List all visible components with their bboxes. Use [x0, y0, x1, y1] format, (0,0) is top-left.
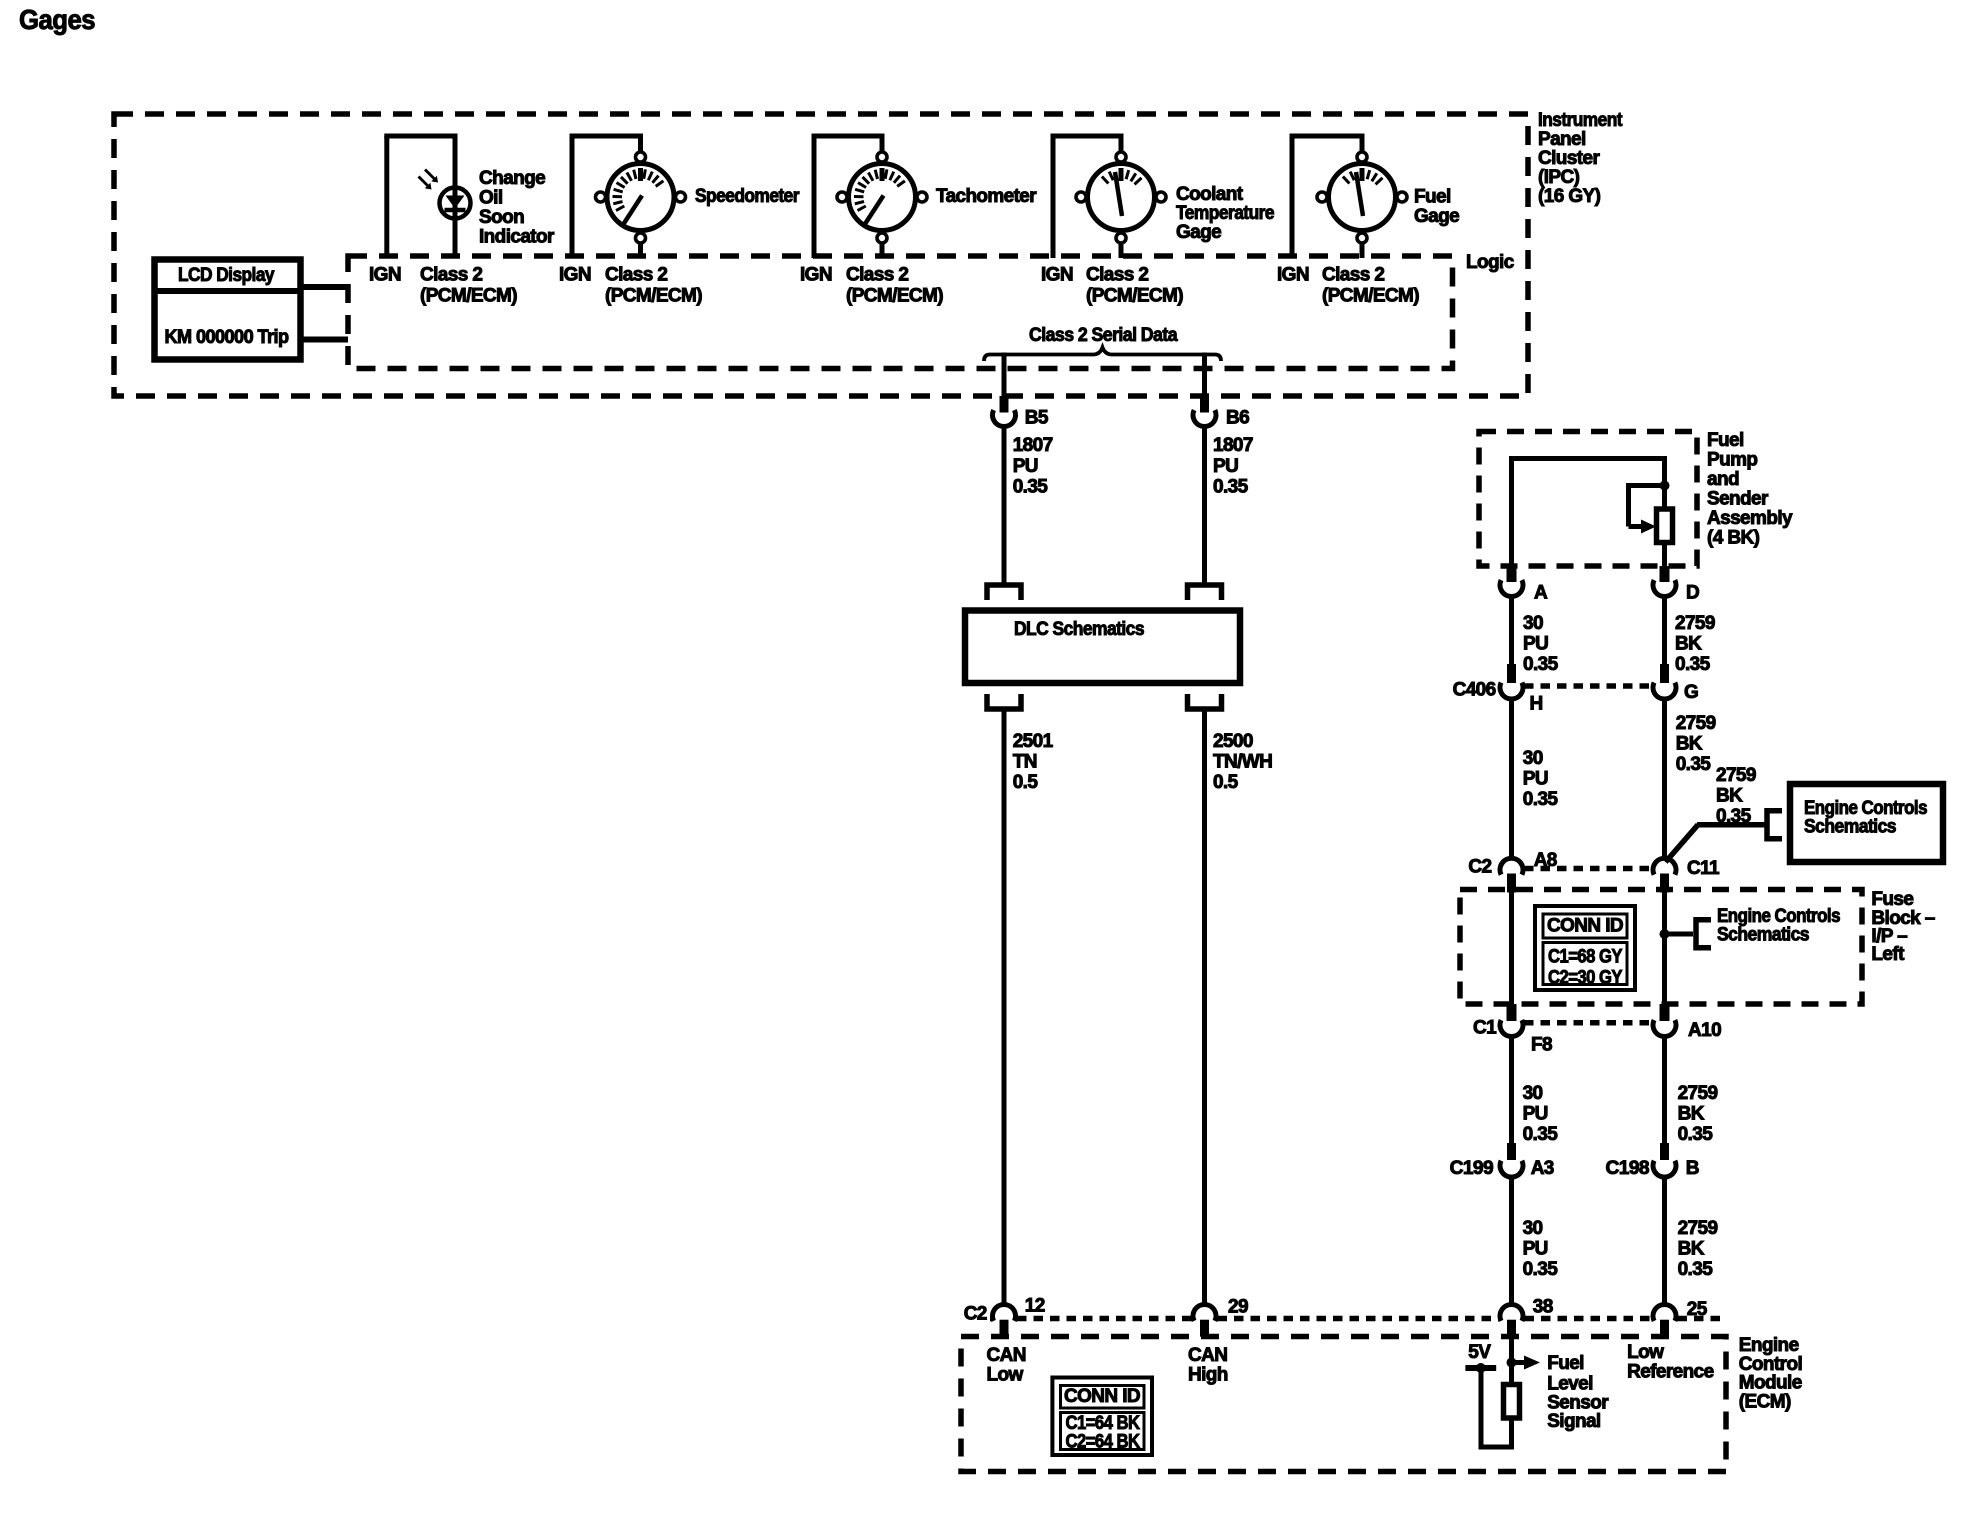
- CONN ID header cell (fuse block): [1543, 914, 1627, 938]
- svg-text:BK: BK: [1678, 1238, 1705, 1259]
- svg-text:PU: PU: [1523, 1103, 1548, 1124]
- indicator lamp: Change Oil Soon LED: [419, 170, 471, 219]
- svg-text:C199: C199: [1450, 1158, 1494, 1179]
- svg-text:25: 25: [1687, 1299, 1708, 1320]
- connector terminal (down cup) at x=1511.5: [1500, 858, 1523, 874]
- wire through LED: [453, 134, 458, 259]
- wire 2759 BK (A10 to C198): [1662, 1035, 1667, 1145]
- wire to Fuel Gage top terminal: [1360, 134, 1365, 153]
- wire to Speedometer top terminal: [638, 134, 643, 153]
- wire 2759 BK (G to C11): [1662, 697, 1667, 859]
- IGN wire loop for Change Oil Soon Indicator: [384, 136, 389, 258]
- svg-text:Oil: Oil: [479, 187, 503, 208]
- in-line connector C1/A10 mate line: [1524, 1020, 1652, 1026]
- wire resistor to 5V: [1509, 1418, 1514, 1447]
- svg-text:PU: PU: [1523, 768, 1548, 789]
- svg-text:(ECM): (ECM): [1739, 1392, 1791, 1413]
- in-line connector C2/C11 mate line: [1524, 866, 1652, 872]
- wire inside pump: top run: [1509, 456, 1667, 461]
- connector pin D (fuel pump): [1660, 566, 1670, 582]
- svg-text:(4 BK): (4 BK): [1707, 527, 1760, 548]
- gauge symbol: Fuel Gage: [1317, 152, 1407, 243]
- svg-text:A: A: [1534, 582, 1548, 603]
- svg-text:PU: PU: [1013, 456, 1038, 477]
- svg-text:Sender: Sender: [1707, 488, 1769, 509]
- svg-text:Instrument: Instrument: [1538, 110, 1623, 131]
- svg-text:H: H: [1530, 693, 1543, 714]
- fuel sender wiper arm: [1629, 483, 1665, 488]
- svg-text:Class 2 Serial Data: Class 2 Serial Data: [1029, 325, 1178, 346]
- svg-text:Fuel: Fuel: [1707, 430, 1744, 451]
- svg-text:Signal: Signal: [1547, 1411, 1600, 1432]
- branch wire diagonal from C11: [1666, 825, 1699, 862]
- svg-text:C2=30 GY: C2=30 GY: [1548, 968, 1623, 989]
- LCD Display box: [155, 260, 301, 360]
- svg-text:C2: C2: [1468, 856, 1491, 877]
- svg-text:Engine: Engine: [1739, 1335, 1799, 1356]
- svg-text:Schematics: Schematics: [1804, 816, 1896, 837]
- brace Class 2 Serial Data: [984, 348, 1221, 362]
- svg-text:C1=68 GY: C1=68 GY: [1548, 947, 1623, 968]
- svg-text:B: B: [1686, 1158, 1699, 1179]
- svg-text:TN: TN: [1013, 751, 1037, 772]
- connector pin 38 (ECM): [1500, 1304, 1523, 1320]
- wire 30 PU (F8 to C199): [1509, 1035, 1514, 1145]
- svg-text:(16 GY): (16 GY): [1538, 186, 1601, 207]
- DLC Schematics box: [965, 611, 1240, 684]
- svg-text:(PCM/ECM): (PCM/ECM): [420, 286, 517, 307]
- wire 2759 BK through fuse block: [1662, 891, 1667, 1005]
- wire Class 2 serial data drop B6: [1202, 353, 1207, 398]
- svg-text:12: 12: [1025, 1295, 1045, 1316]
- connector pin B6 (IPC): [1200, 396, 1209, 413]
- wire 30 PU (H to A8): [1509, 697, 1514, 859]
- svg-text:5V: 5V: [1468, 1342, 1491, 1363]
- svg-text:0.35: 0.35: [1523, 654, 1559, 675]
- svg-text:KM 000000 Trip: KM 000000 Trip: [165, 327, 289, 348]
- wire below pin A: [1509, 595, 1514, 667]
- IGN wire loop for Speedometer: [570, 136, 575, 258]
- CONN ID box (ECM): [1052, 1378, 1152, 1456]
- svg-text:2759: 2759: [1675, 613, 1715, 634]
- svg-text:A3: A3: [1531, 1158, 1554, 1179]
- svg-text:38: 38: [1533, 1296, 1553, 1317]
- svg-text:Soon: Soon: [479, 207, 524, 228]
- svg-text:IGN: IGN: [800, 265, 832, 286]
- svg-text:Schematics: Schematics: [1717, 924, 1809, 945]
- svg-text:Reference: Reference: [1627, 1361, 1714, 1382]
- svg-text:2500: 2500: [1213, 731, 1253, 752]
- svg-text:BK: BK: [1675, 633, 1702, 654]
- connector pin A (fuel pump): [1507, 566, 1517, 582]
- svg-text:BK: BK: [1676, 733, 1703, 754]
- svg-text:Level: Level: [1547, 1374, 1593, 1395]
- svg-text:CAN: CAN: [1188, 1345, 1227, 1366]
- svg-text:A8: A8: [1534, 850, 1557, 871]
- svg-text:Gage: Gage: [1176, 222, 1221, 243]
- svg-text:(PCM/ECM): (PCM/ECM): [605, 286, 702, 307]
- svg-text:Module: Module: [1739, 1373, 1802, 1394]
- junction dot fuel level sensor signal: [1507, 1358, 1517, 1368]
- wire LCD to logic (upper): [300, 284, 348, 290]
- svg-text:C198: C198: [1606, 1158, 1650, 1179]
- svg-text:Assembly: Assembly: [1707, 508, 1793, 529]
- gauge symbol: Coolant Temperature Gage: [1076, 152, 1166, 243]
- wire 30 PU through fuse block: [1509, 891, 1514, 1005]
- svg-text:2759: 2759: [1678, 1083, 1718, 1104]
- wire to Coolant Temperature Gage top terminal: [1119, 134, 1124, 153]
- connector pin 25 (ECM): [1653, 1304, 1676, 1320]
- connector terminal below fuse block at x=1664.5: [1660, 1004, 1670, 1021]
- svg-text:BK: BK: [1716, 785, 1743, 806]
- wire Class 2 serial data drop B5: [1002, 353, 1007, 398]
- svg-text:Tachometer: Tachometer: [936, 186, 1037, 207]
- svg-text:IGN: IGN: [559, 265, 591, 286]
- junction dot (wiper tap): [1660, 481, 1670, 491]
- svg-text:0.35: 0.35: [1675, 654, 1711, 675]
- svg-text:Left: Left: [1871, 944, 1905, 965]
- wire pin 38 into ECM: [1509, 1337, 1514, 1386]
- svg-text:Low: Low: [1627, 1342, 1664, 1363]
- connector C406 terminal at x=1664.5: [1660, 664, 1669, 683]
- svg-text:Class 2: Class 2: [420, 265, 482, 286]
- svg-text:C2=64 BK: C2=64 BK: [1066, 1431, 1141, 1452]
- svg-text:C11: C11: [1687, 858, 1720, 879]
- svg-text:TN/WH: TN/WH: [1213, 751, 1272, 772]
- wire inside pump: left leg: [1509, 456, 1514, 567]
- Fuel Pump and Sender Assembly dashed box: [1479, 432, 1697, 567]
- connector pin 29 (ECM): [1193, 1304, 1216, 1320]
- svg-text:Coolant: Coolant: [1176, 184, 1244, 205]
- svg-text:Panel: Panel: [1538, 129, 1586, 150]
- wire Fuel Gage to logic box: [1360, 243, 1365, 258]
- svg-text:0.35: 0.35: [1523, 1124, 1559, 1145]
- wire 30 PU (A3 to ECM 38): [1509, 1175, 1514, 1305]
- svg-text:Fuse: Fuse: [1871, 889, 1913, 910]
- wire to Tachometer top terminal: [880, 134, 885, 153]
- svg-text:30: 30: [1523, 748, 1543, 769]
- svg-text:2759: 2759: [1676, 713, 1716, 734]
- svg-text:IGN: IGN: [369, 265, 401, 286]
- branch wire to bracket: [1665, 932, 1694, 937]
- DLC bottom connector (right): [1188, 694, 1222, 709]
- wire inside pump: right leg to sender: [1662, 459, 1667, 511]
- svg-text:G: G: [1684, 682, 1698, 703]
- svg-text:(IPC): (IPC): [1538, 167, 1580, 188]
- svg-text:C2: C2: [964, 1304, 987, 1325]
- svg-text:0.35: 0.35: [1213, 476, 1249, 497]
- svg-text:Class 2: Class 2: [1322, 265, 1384, 286]
- connector C406 terminal at x=1511.5: [1507, 664, 1516, 683]
- svg-text:BK: BK: [1678, 1103, 1705, 1124]
- CONN ID body cell (ECM): [1061, 1413, 1145, 1450]
- svg-text:LCD Display: LCD Display: [178, 265, 275, 286]
- svg-text:High: High: [1188, 1364, 1228, 1385]
- pull-up resistor in ECM: [1504, 1385, 1520, 1419]
- 5V supply bar: [1465, 1365, 1496, 1371]
- CONN ID body cell (fuse block): [1543, 943, 1627, 985]
- svg-text:0.35: 0.35: [1678, 1259, 1714, 1280]
- svg-text:Class 2: Class 2: [846, 265, 908, 286]
- ECM connector mate line: [990, 1316, 991, 1322]
- svg-text:0.5: 0.5: [1013, 772, 1039, 793]
- svg-text:CAN: CAN: [987, 1345, 1026, 1366]
- svg-text:0.35: 0.35: [1013, 476, 1049, 497]
- gauge symbol: Tachometer: [837, 152, 927, 243]
- Fuse Block I/P Left dashed box: [1460, 890, 1862, 1005]
- wire 1807 PU below B6: [1202, 425, 1207, 586]
- svg-text:Change: Change: [479, 168, 545, 189]
- svg-text:Gage: Gage: [1414, 206, 1459, 227]
- svg-text:CONN ID: CONN ID: [1547, 916, 1623, 937]
- wire 2759 BK (B to ECM 25): [1662, 1175, 1667, 1305]
- wire Coolant Temperature Gage to logic box: [1119, 243, 1124, 258]
- in-line connector C199: [1507, 1143, 1516, 1160]
- bracket to Engine Controls Schematics (text): [1696, 920, 1711, 948]
- CONN ID header cell (ECM): [1061, 1386, 1145, 1409]
- CONN ID box (fuse block): [1535, 906, 1635, 990]
- wire 2501 TN (CAN Low): [1002, 709, 1007, 1305]
- Instrument Panel Cluster (IPC) dashed box: [114, 114, 1528, 396]
- svg-text:IGN: IGN: [1277, 265, 1309, 286]
- wire below pin D: [1662, 595, 1667, 667]
- connector pin B5 (IPC): [1000, 396, 1009, 413]
- svg-text:Fuel: Fuel: [1547, 1353, 1584, 1374]
- svg-text:Fuel: Fuel: [1414, 186, 1451, 207]
- svg-text:30: 30: [1523, 1083, 1543, 1104]
- Logic dashed box: [348, 256, 1453, 369]
- bracket to Engine Controls Schematics box: [1767, 811, 1782, 839]
- svg-text:0.35: 0.35: [1523, 789, 1559, 810]
- svg-text:2759: 2759: [1678, 1218, 1718, 1239]
- IGN wire loop for Coolant Temperature Gage: [1051, 136, 1056, 258]
- svg-text:IGN: IGN: [1041, 265, 1073, 286]
- in-line connector C406 mate line: [1524, 683, 1652, 689]
- svg-text:0.5: 0.5: [1213, 772, 1239, 793]
- svg-text:0.35: 0.35: [1523, 1259, 1559, 1280]
- svg-text:CONN ID: CONN ID: [1064, 1386, 1140, 1407]
- svg-text:A10: A10: [1688, 1020, 1721, 1041]
- svg-text:PU: PU: [1213, 456, 1238, 477]
- junction dot on 2759 BK in fuse block: [1660, 929, 1670, 939]
- svg-text:Class 2: Class 2: [1086, 265, 1148, 286]
- wire 1807 PU below B5: [1002, 425, 1007, 586]
- svg-text:2501: 2501: [1013, 731, 1054, 752]
- wire Speedometer to logic box: [638, 243, 643, 258]
- arrow Fuel Level Sensor Signal: [1512, 1360, 1526, 1365]
- svg-text:1807: 1807: [1013, 435, 1053, 456]
- wire sender to pin D: [1662, 543, 1667, 568]
- connector pin 12 (ECM): [993, 1304, 1016, 1320]
- svg-text:F8: F8: [1531, 1034, 1552, 1055]
- svg-text:C1: C1: [1473, 1018, 1497, 1039]
- Engine Controls Schematics box: [1790, 784, 1943, 862]
- svg-text:30: 30: [1523, 613, 1543, 634]
- svg-text:D: D: [1686, 582, 1699, 603]
- svg-text:1807: 1807: [1213, 435, 1253, 456]
- svg-text:Low: Low: [987, 1364, 1024, 1385]
- svg-text:Logic: Logic: [1466, 252, 1515, 273]
- DLC bottom connector (left): [987, 694, 1021, 709]
- fuel sender variable resistor: [1657, 509, 1673, 543]
- svg-text:0.35: 0.35: [1678, 1124, 1714, 1145]
- in-line connector C198: [1660, 1143, 1669, 1160]
- wire LCD to logic (lower): [300, 337, 348, 343]
- svg-text:and: and: [1707, 469, 1739, 490]
- svg-text:PU: PU: [1523, 633, 1548, 654]
- svg-text:C406: C406: [1453, 679, 1496, 700]
- svg-text:Speedometer: Speedometer: [695, 186, 800, 207]
- svg-text:Gages: Gages: [19, 4, 95, 35]
- connector terminal (down cup) at x=1664.5: [1653, 858, 1676, 874]
- svg-text:(PCM/ECM): (PCM/ECM): [1322, 286, 1419, 307]
- svg-text:(PCM/ECM): (PCM/ECM): [846, 286, 943, 307]
- svg-text:Class 2: Class 2: [605, 265, 667, 286]
- gauge symbol: Speedometer: [596, 152, 686, 243]
- svg-text:0.35: 0.35: [1676, 754, 1712, 775]
- connector terminal below fuse block at x=1511.5: [1507, 1004, 1517, 1021]
- svg-text:Temperature: Temperature: [1176, 203, 1274, 224]
- DLC top connector (left): [987, 585, 1021, 600]
- wire Tachometer to logic box: [880, 243, 885, 258]
- svg-text:29: 29: [1228, 1296, 1248, 1317]
- svg-text:Cluster: Cluster: [1538, 148, 1600, 169]
- svg-text:30: 30: [1523, 1218, 1543, 1239]
- IGN wire loop for Fuel Gage: [1290, 136, 1295, 258]
- LCD box divider: [155, 288, 301, 294]
- svg-text:Indicator: Indicator: [479, 226, 555, 247]
- Engine Control Module (ECM) dashed box: [961, 1337, 1726, 1472]
- svg-text:PU: PU: [1523, 1238, 1548, 1259]
- wire 2500 TN/WH (CAN High): [1202, 709, 1207, 1305]
- svg-text:DLC Schematics: DLC Schematics: [1014, 619, 1144, 640]
- IGN wire loop for Tachometer: [812, 136, 817, 258]
- svg-text:B6: B6: [1226, 407, 1249, 428]
- svg-text:Pump: Pump: [1707, 449, 1757, 470]
- svg-text:B5: B5: [1025, 407, 1049, 428]
- DLC top connector (right): [1188, 585, 1222, 600]
- svg-text:2759: 2759: [1716, 765, 1756, 786]
- svg-text:(PCM/ECM): (PCM/ECM): [1086, 286, 1183, 307]
